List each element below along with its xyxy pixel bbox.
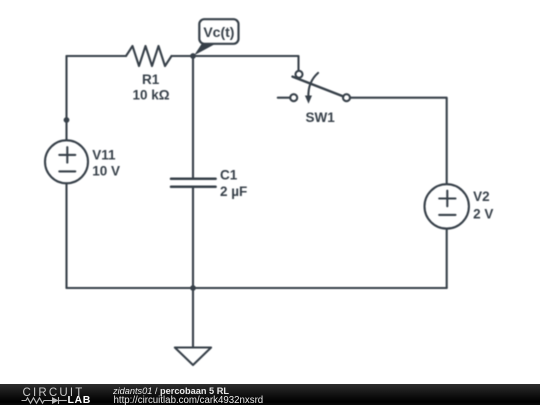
svg-text:Vc(t): Vc(t) [203,24,234,40]
svg-text:C1: C1 [220,168,238,183]
switch SW1 left terminal [290,94,297,101]
ground [175,288,211,365]
wire top-left horizontal [67,55,127,57]
capacitor C1 [171,179,216,187]
switch SW1 toggle arrow [308,73,318,97]
wire resistor to node [172,55,194,57]
switch SW1 unconnected throw stub [278,97,290,99]
footer url text [114,395,264,406]
svg-text:R1: R1 [142,72,160,87]
svg-text:LAB: LAB [68,394,91,405]
svg-text:V2: V2 [473,189,490,204]
svg-text:10 kΩ: 10 kΩ [132,88,169,103]
node Vc(t) junction dot [190,53,196,59]
svg-text:10 V: 10 V [92,164,120,179]
CircuitLab logo [0,384,110,405]
voltage source V2 [425,184,469,228]
junction dot bottom rail [190,285,196,291]
footer title text [113,386,229,396]
switch SW1 lever [293,77,344,97]
switch SW1 right terminal [343,94,350,101]
svg-text:SW1: SW1 [305,110,335,125]
wire node to capacitor [192,56,194,178]
wire left rail top [65,56,67,140]
wire bottom rail [67,287,447,289]
footer bar [0,384,540,405]
junction dot left rail [64,117,70,123]
wire capacitor to bottom rail [192,188,194,288]
wire switch to right rail [350,98,447,185]
svg-text:2 µF: 2 µF [220,184,247,199]
wire V2 to bottom rail [446,229,448,288]
svg-text:V11: V11 [92,147,116,162]
voltage source V11 [45,140,88,183]
switch SW1 [278,71,350,104]
switch SW1 top terminal [296,71,303,78]
svg-text:2 V: 2 V [473,206,493,221]
wire node to switch [193,56,299,71]
wire left rail bottom [65,183,67,288]
resistor R1 [126,46,172,66]
node Vc(t) label callout [194,19,238,55]
